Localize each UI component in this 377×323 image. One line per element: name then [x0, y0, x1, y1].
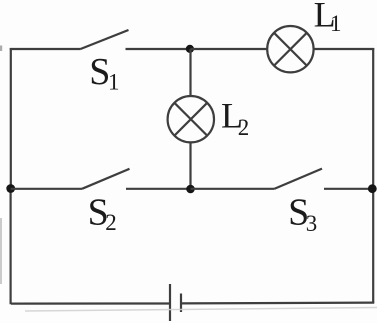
svg-text:2: 2	[105, 210, 117, 235]
wire: top right from L1 to right rail	[314, 48, 375, 50]
svg-text:2: 2	[238, 115, 250, 140]
wire: middle right from S3 to right rail	[324, 188, 374, 190]
wire: left rail upper segment	[10, 48, 12, 189]
switch S2 blade	[82, 169, 130, 189]
svg-text:3: 3	[306, 211, 318, 236]
wire: bottom right from battery to right rail	[181, 302, 374, 305]
wire: middle from node B to switch S3	[191, 188, 275, 190]
lamp L2	[168, 96, 214, 142]
scan smudge left edge	[0, 218, 2, 284]
wire: top from node A to lamp L1	[191, 48, 268, 50]
wire: bottom left from left rail to battery	[11, 302, 170, 304]
node (right rail / middle wire junction) dot	[368, 184, 377, 193]
svg-text:1: 1	[330, 11, 342, 36]
svg-text:1: 1	[108, 70, 120, 95]
switch S1 blade	[81, 30, 129, 49]
switch S3 blade	[275, 169, 323, 189]
wire: middle left from left rail to switch S2	[11, 188, 82, 190]
lamp L1	[267, 26, 313, 72]
node B junction dot (bottom of L2 branch)	[186, 185, 195, 194]
wire: branch from lamp L2 down to node B	[189, 142, 191, 188]
battery long plate (positive)	[169, 284, 171, 321]
wire: top left horizontal to switch S1	[10, 48, 81, 50]
node (left rail / middle wire junction) dot	[6, 184, 15, 193]
scan ghost line below bottom wire	[25, 308, 377, 312]
scan smudge left edge faint	[0, 46, 2, 52]
wire: right rail lower segment	[372, 189, 374, 303]
wire: right rail upper segment	[372, 48, 374, 189]
node A junction dot (top of L2 branch)	[186, 45, 194, 53]
battery short plate (negative)	[180, 294, 182, 313]
wire: left rail lower segment	[10, 189, 12, 304]
wire: top middle from S1 to node A	[126, 48, 191, 50]
wire: middle from S2 to node B	[126, 188, 191, 190]
wire: branch from node A down to lamp L2	[189, 49, 191, 96]
